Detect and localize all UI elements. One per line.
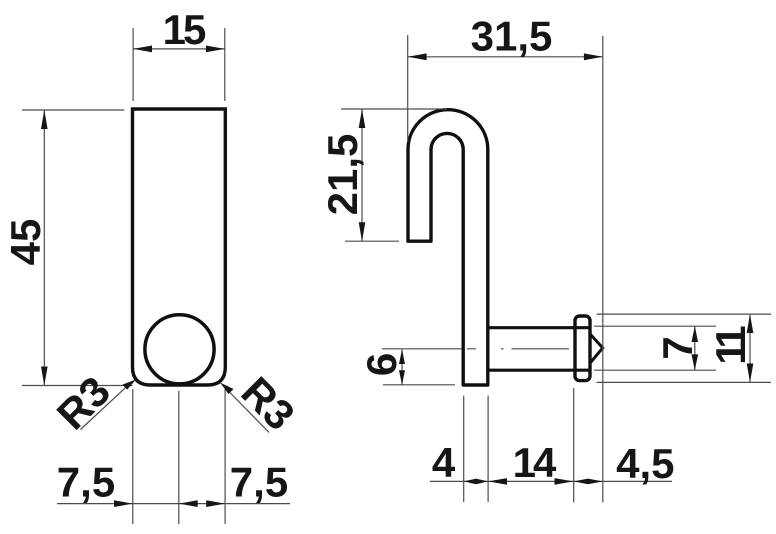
svg-text:7,5: 7,5 [57, 459, 115, 506]
dim 4 arrows [464, 479, 488, 485]
svg-text:R3: R3 [48, 367, 119, 438]
pin cylinder [488, 328, 590, 371]
bottom dimension line 4 14 4,5 [430, 480, 672, 482]
dim 15 arrow left [133, 46, 152, 53]
dim 6 arrow bottom [399, 370, 405, 385]
dim 7,5 arrow at left edge [114, 500, 133, 507]
fillet R3 left leader [81, 384, 131, 430]
pin cone tip [591, 335, 603, 363]
dim 45 arrow bottom [41, 367, 48, 386]
dim 7,5 arrow at right edge [206, 500, 225, 507]
svg-text:4: 4 [432, 439, 456, 486]
dim 31,5 extension line left [407, 35, 409, 142]
dim 11 dimension line [749, 314, 751, 382]
dim 7 arrow top [692, 326, 699, 342]
dim 31,5 extension line right (full height) [602, 36, 604, 503]
dim 11 extension line top [597, 313, 771, 315]
fillet R3 left arrowhead [123, 380, 137, 390]
centerline dash-dot [467, 348, 569, 350]
svg-text:4,5: 4,5 [616, 440, 674, 487]
dim 14 arrow left [488, 478, 507, 485]
dim 11 extension line bottom [597, 381, 771, 383]
dim 45 extension line top [22, 109, 124, 111]
svg-text:7: 7 [654, 336, 701, 359]
dim 7 dimension line [694, 326, 696, 370]
fillet R3 right arrowhead [220, 383, 234, 395]
fillet R3 right leader [225, 388, 269, 433]
dim 15 dimension line [133, 48, 225, 50]
dim 7,5 extension line left [132, 389, 134, 524]
hole circle [145, 315, 214, 384]
pin head washer [575, 316, 590, 381]
dim 6 arrow top [399, 349, 405, 364]
front view plate outline [133, 109, 226, 385]
dim 21,5 arrow bottom [359, 222, 366, 241]
svg-text:45: 45 [2, 219, 49, 266]
centerline solid left part [382, 348, 462, 350]
dim 45 arrow top [41, 110, 48, 129]
svg-text:11: 11 [707, 326, 754, 365]
dim 14 arrow right [555, 478, 574, 485]
dim 15 arrow right [206, 46, 225, 53]
dim 21,5 extension line bottom [345, 240, 399, 242]
dim 45 dimension line [43, 110, 45, 386]
dim 6 extension line bottom [383, 384, 455, 386]
side view hook profile [408, 110, 488, 385]
dim 4,5 arrows [574, 479, 603, 485]
dim 11 arrow top [747, 314, 754, 333]
dim 4 extension line right [487, 396, 489, 502]
dim 21,5 extension line top [341, 108, 447, 110]
svg-text:R3: R3 [233, 368, 304, 439]
dim 7 extension line bottom [594, 369, 716, 371]
dim 4,5 extension line left [573, 388, 575, 503]
dim 31,5 arrow left [408, 53, 427, 60]
svg-text:31,5: 31,5 [471, 13, 553, 60]
dim 11 arrow bottom [747, 364, 754, 383]
dim 21,5 dimension line [361, 109, 363, 241]
dim 4 extension line left [463, 396, 465, 502]
dim 31,5 dimension line [408, 56, 603, 58]
svg-text:15: 15 [163, 6, 206, 53]
dim 7,5 dimension line [57, 503, 290, 505]
svg-text:21,5: 21,5 [319, 134, 366, 216]
dim 21,5 arrow top [359, 109, 366, 128]
dim 45 extension line bottom [22, 385, 133, 387]
svg-text:14: 14 [513, 439, 557, 486]
dim 6 dimension line [401, 349, 403, 384]
dim 7 arrow bottom [692, 354, 699, 370]
dim 7,5 extension line right [224, 389, 226, 524]
svg-text:6: 6 [358, 353, 405, 376]
dim 15 extension line left [132, 28, 134, 101]
dim 7,5 arrow at center [179, 500, 198, 507]
dim 7 extension line top [594, 325, 716, 327]
svg-text:7,5: 7,5 [230, 459, 288, 506]
dim 31,5 arrow right [584, 53, 603, 60]
dim 15 extension line right [224, 28, 226, 101]
dim 7,5 extension line center [178, 391, 180, 524]
